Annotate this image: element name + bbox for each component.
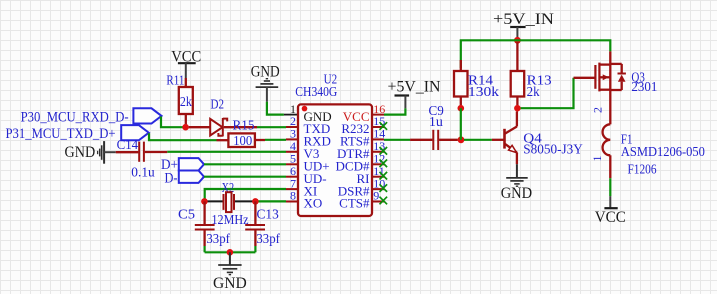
U2 pin names left column — [304, 109, 332, 211]
transistor Q4 S8050-J3Y — [492, 111, 583, 164]
svg-text:1: 1 — [590, 156, 604, 162]
svg-text:CH340G: CH340G — [295, 84, 337, 99]
svg-text:2k: 2k — [180, 94, 192, 109]
U2 pin numbers left — [290, 102, 296, 203]
node crystal right — [252, 198, 259, 205]
no-connect X pin 13 — [380, 147, 388, 155]
svg-text:GND: GND — [251, 64, 280, 81]
svg-text:C5: C5 — [178, 206, 195, 221]
wire pin 14 to C9 — [384, 139, 410, 141]
U2 pin names right column — [336, 109, 370, 211]
node junction R11/P30/D2 — [182, 124, 189, 131]
node R14 bottom — [458, 105, 465, 112]
port P31_MCU_TXD_D+ — [6, 125, 149, 142]
ground GND (left, at C14) — [65, 141, 116, 164]
svg-text:130k: 130k — [468, 84, 499, 99]
resistor R11 2k — [166, 73, 192, 126]
pin 1 lead — [284, 114, 298, 116]
wire R13 node to Q3 gate — [521, 78, 574, 108]
node bottom rail — [227, 249, 234, 256]
svg-text:S8050-J3Y: S8050-J3Y — [523, 141, 583, 156]
power port VCC (bottom right) — [595, 196, 626, 226]
no-connect X pin 11 — [380, 172, 388, 180]
svg-text:2301: 2301 — [631, 79, 657, 94]
svg-text:33pf: 33pf — [256, 231, 280, 246]
capacitor C13 33pf — [245, 201, 280, 246]
no-connect X pin 10 — [380, 184, 388, 192]
wire P31 to R15 — [149, 133, 217, 140]
node R13 bottom — [514, 105, 521, 112]
wire GND to pin 1 — [267, 102, 284, 115]
U2 left pin leads 2-8 — [286, 127, 298, 202]
ground GND (top, at pin 1) — [251, 64, 280, 102]
wire C5 bottom — [204, 246, 206, 252]
svg-text:9: 9 — [373, 189, 379, 203]
svg-text:C13: C13 — [257, 206, 280, 221]
wire D+ to pin 5 — [204, 163, 286, 165]
power port VCC (top left) — [171, 49, 201, 79]
resistor R15 100 — [217, 118, 266, 148]
U2 pin numbers right — [373, 102, 385, 203]
wire +5V rail — [461, 40, 611, 68]
svg-text:GND: GND — [213, 275, 247, 292]
node +5V rail — [514, 37, 521, 44]
svg-text:1u: 1u — [429, 114, 443, 129]
svg-text:ASMD1206-050: ASMD1206-050 — [621, 144, 705, 159]
capacitor C14 0.1u — [116, 137, 168, 180]
svg-text:GND: GND — [501, 185, 532, 202]
svg-text:VCC: VCC — [595, 209, 626, 226]
wire F1 to VCC — [609, 178, 611, 196]
wire D2 to pin 2 — [257, 126, 286, 128]
no-connect X pin 12 — [380, 160, 388, 168]
wire R14 to C9 node — [460, 108, 462, 140]
node crystal left — [201, 198, 208, 205]
no-connect X pin 15 — [380, 122, 388, 130]
transistor Q3 2301 (P-MOSFET) — [574, 51, 658, 94]
port D- — [165, 170, 205, 186]
capacitor C9 1u — [410, 103, 458, 150]
resistor R14 130k — [454, 60, 499, 105]
port D+ — [161, 157, 204, 173]
power port +5V_IN (at pin 16) — [388, 79, 441, 109]
wire C9 node to Q4 base — [464, 139, 492, 141]
wire pin 7 (XI) to crystal left — [205, 189, 286, 201]
no-connect X pin 9 — [380, 197, 388, 205]
svg-text:8: 8 — [290, 189, 296, 203]
svg-text:P30_MCU_RXD_D-: P30_MCU_RXD_D- — [21, 109, 129, 125]
power port +5V_IN (top) — [493, 11, 554, 37]
svg-text:D2: D2 — [211, 97, 225, 112]
wire bottom rail — [205, 251, 256, 253]
wire pin16 to +5V_IN — [384, 108, 405, 114]
wire P30 to junction — [161, 117, 183, 128]
svg-text:P31_MCU_TXD_D+: P31_MCU_TXD_D+ — [6, 126, 116, 142]
wire pin 8 (XO) to crystal right — [255, 200, 286, 202]
svg-text:+5V_IN: +5V_IN — [388, 79, 441, 96]
svg-text:R11: R11 — [166, 73, 184, 88]
diode D2 — [189, 97, 257, 137]
svg-text:R15: R15 — [233, 118, 255, 133]
svg-text:D-: D- — [165, 170, 178, 186]
svg-text:XO: XO — [304, 196, 323, 211]
ground GND (bottom, below crystal caps) — [213, 252, 247, 292]
wire R15 to pin 3 — [265, 139, 286, 141]
wire C14 to pin 4 (V3) — [167, 151, 286, 153]
port P30_MCU_RXD_D- — [21, 108, 162, 125]
crystal X2 12MHz — [206, 180, 253, 227]
svg-text:CTS#: CTS# — [339, 196, 370, 211]
svg-text:0.1u: 0.1u — [131, 164, 155, 179]
ground GND (below Q4) — [501, 164, 532, 202]
svg-text:33pf: 33pf — [206, 231, 230, 246]
IC U2 CH340G — [295, 72, 372, 217]
svg-text:C14: C14 — [117, 137, 139, 152]
svg-text:2k: 2k — [527, 84, 540, 99]
capacitor C5 33pf — [178, 201, 230, 246]
svg-text:GND: GND — [65, 144, 96, 161]
fuse F1 ASMD1206-050 — [590, 90, 705, 178]
wire C13 bottom — [254, 246, 256, 252]
U2 right pin leads 16-9 — [372, 115, 384, 202]
svg-text:12MHz: 12MHz — [212, 212, 249, 227]
svg-text:F1206: F1206 — [628, 162, 657, 177]
svg-text:2: 2 — [591, 107, 605, 113]
svg-text:+5V_IN: +5V_IN — [493, 11, 554, 28]
wire D- to pin 6 — [204, 176, 286, 178]
node C9/R14/base junction — [458, 136, 465, 143]
resistor R13 2k — [511, 42, 552, 105]
svg-text:100: 100 — [233, 133, 252, 148]
